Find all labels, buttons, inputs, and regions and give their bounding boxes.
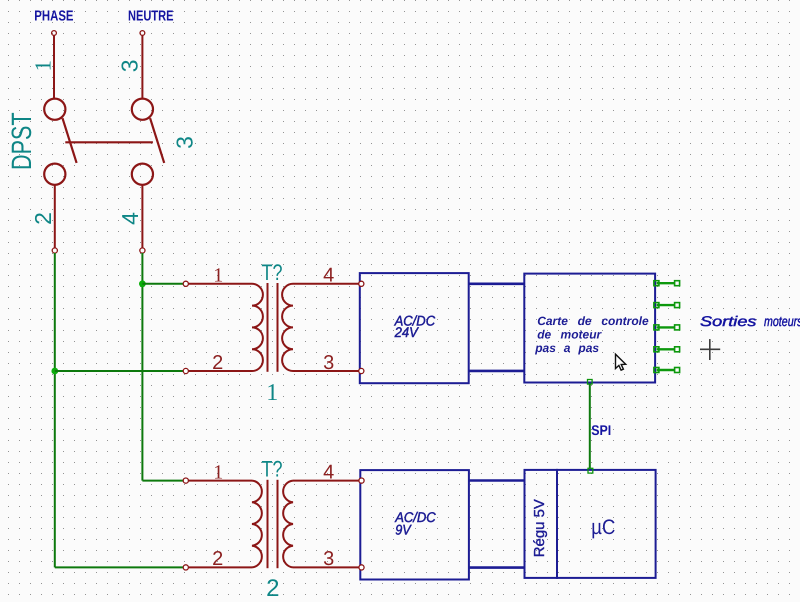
svg-text:NEUTRE: NEUTRE: [128, 9, 174, 25]
sheet pin motor output 1: [654, 281, 680, 286]
T1 pin 3 circle: [359, 368, 364, 373]
wire green elbow to T2 pin1: [142, 480, 183, 482]
block uC: [557, 470, 656, 578]
svg-text:24V: 24V: [394, 324, 420, 340]
svg-text:SPI: SPI: [591, 422, 611, 438]
switch SW1 contact circle top-right: [132, 99, 153, 120]
label DPST: [6, 112, 37, 170]
T1 pin 4 circle: [359, 281, 364, 286]
T2 pin 3 circle: [359, 565, 364, 570]
wire switch pin2 down: [54, 185, 56, 248]
T1 pin 2 circle: [183, 368, 188, 373]
pin number 3 (switch arm): [172, 136, 198, 149]
transformer T1: [183, 260, 364, 406]
connector AC/DC9V to Regu (top): [469, 479, 525, 482]
sheet pin motor output 3: [654, 325, 680, 330]
switch SW1 contact circle top-left: [44, 99, 65, 120]
T2 secondary winding: [283, 481, 293, 568]
T1 pin 3 wire: [293, 370, 359, 372]
T1 core: [267, 283, 269, 372]
svg-text:de moteur: de moteur: [537, 327, 602, 341]
svg-text:2: 2: [212, 352, 223, 374]
mouse cursor: [616, 354, 626, 370]
connector AC/DC24V to Carte (top): [469, 282, 525, 285]
svg-text:1: 1: [213, 461, 223, 483]
node switch pin2 end: [52, 248, 57, 253]
svg-text:DPST: DPST: [6, 112, 37, 170]
svg-text:1: 1: [213, 265, 223, 287]
SPI pad on uC: [588, 468, 593, 473]
svg-text:1: 1: [31, 60, 56, 72]
wire SPI: [589, 384, 591, 468]
sheet pin motor output 2: [654, 303, 680, 308]
wire switch pin4 down: [141, 185, 143, 248]
T2 pin 3 wire: [293, 566, 359, 568]
block Carte de controle: [524, 274, 655, 383]
switch SW1 arm left: [63, 118, 77, 163]
svg-text:4: 4: [323, 461, 334, 483]
svg-text:3: 3: [323, 548, 334, 570]
svg-text:µC: µC: [591, 516, 615, 539]
T1 secondary winding: [282, 284, 293, 371]
junction at T1 pin1 row: [139, 280, 146, 287]
svg-text:3: 3: [117, 59, 143, 72]
svg-text:Régu 5V: Régu 5V: [532, 499, 548, 557]
crosshair marker: [700, 339, 720, 360]
svg-text:2: 2: [212, 548, 223, 570]
pin number 2 (switch): [30, 212, 56, 225]
svg-text:Sorties: Sorties: [700, 313, 757, 329]
T1 pin 1 wire: [188, 283, 252, 285]
wire green neutre column down: [141, 253, 143, 481]
svg-text:3: 3: [323, 352, 334, 374]
pin number 3 (switch top): [117, 59, 143, 72]
switch SW1 contact circle bottom-right: [132, 164, 153, 185]
wire NEUTRE to switch: [141, 36, 143, 99]
T2 core: [267, 480, 269, 568]
T2 pin 4 circle: [359, 478, 364, 483]
node switch pin4 end: [140, 248, 145, 253]
node PHASE open end: [52, 31, 57, 36]
svg-text:pas a pas: pas a pas: [534, 341, 599, 355]
svg-text:1: 1: [266, 380, 278, 406]
wire green phase column down: [54, 253, 56, 567]
svg-text:2: 2: [266, 575, 279, 602]
wire PHASE to switch: [53, 36, 55, 99]
block AC/DC 24V: [360, 273, 469, 383]
switch SW1 contact circle bottom-left: [44, 164, 65, 185]
svg-text:moteurs: moteurs: [764, 313, 800, 329]
T1 pin 1 circle: [183, 281, 188, 286]
SPI pad on Carte: [588, 380, 593, 385]
svg-text:PHASE: PHASE: [34, 9, 73, 25]
svg-text:T?: T?: [262, 260, 283, 285]
svg-text:9V: 9V: [395, 522, 412, 538]
wire green to T1 pin2: [55, 370, 184, 372]
T2 pin 4 wire: [293, 480, 359, 482]
wire green elbow to T2 pin2: [55, 566, 184, 568]
switch SW1 arm right: [150, 118, 164, 163]
svg-text:4: 4: [117, 212, 143, 225]
T2 pin 1 wire: [188, 480, 252, 482]
connector AC/DC24V to Carte (bottom): [469, 370, 525, 373]
T1 primary winding: [252, 284, 263, 371]
T2 pin 1 circle: [183, 478, 188, 483]
junction at T1 pin2 row: [51, 368, 58, 375]
node NEUTRE open end: [140, 31, 145, 36]
svg-text:2: 2: [30, 212, 56, 225]
T2 primary winding: [252, 481, 262, 568]
T1 pin 4 wire: [293, 283, 359, 285]
svg-text:T?: T?: [262, 457, 283, 482]
connector AC/DC9V to Regu (bottom): [469, 566, 525, 569]
pin number 1 (switch): [31, 60, 56, 72]
T2 pin 2 wire: [188, 566, 252, 568]
svg-text:Carte de controle: Carte de controle: [537, 314, 649, 328]
block AC/DC 9V: [360, 470, 469, 579]
switch SW1 mechanical link: [65, 141, 153, 143]
block Regu 5V: [525, 470, 558, 578]
sheet pin motor output 5: [654, 368, 680, 373]
wire green to T1 pin1: [142, 283, 183, 285]
transformer T2: [183, 457, 364, 602]
sheet pin motor output 4: [654, 347, 680, 352]
T2 pin 2 circle: [183, 565, 188, 570]
svg-text:4: 4: [323, 265, 334, 287]
pin number 4 (switch): [117, 212, 143, 225]
T1 pin 2 wire: [188, 370, 252, 372]
svg-text:3: 3: [172, 136, 198, 149]
